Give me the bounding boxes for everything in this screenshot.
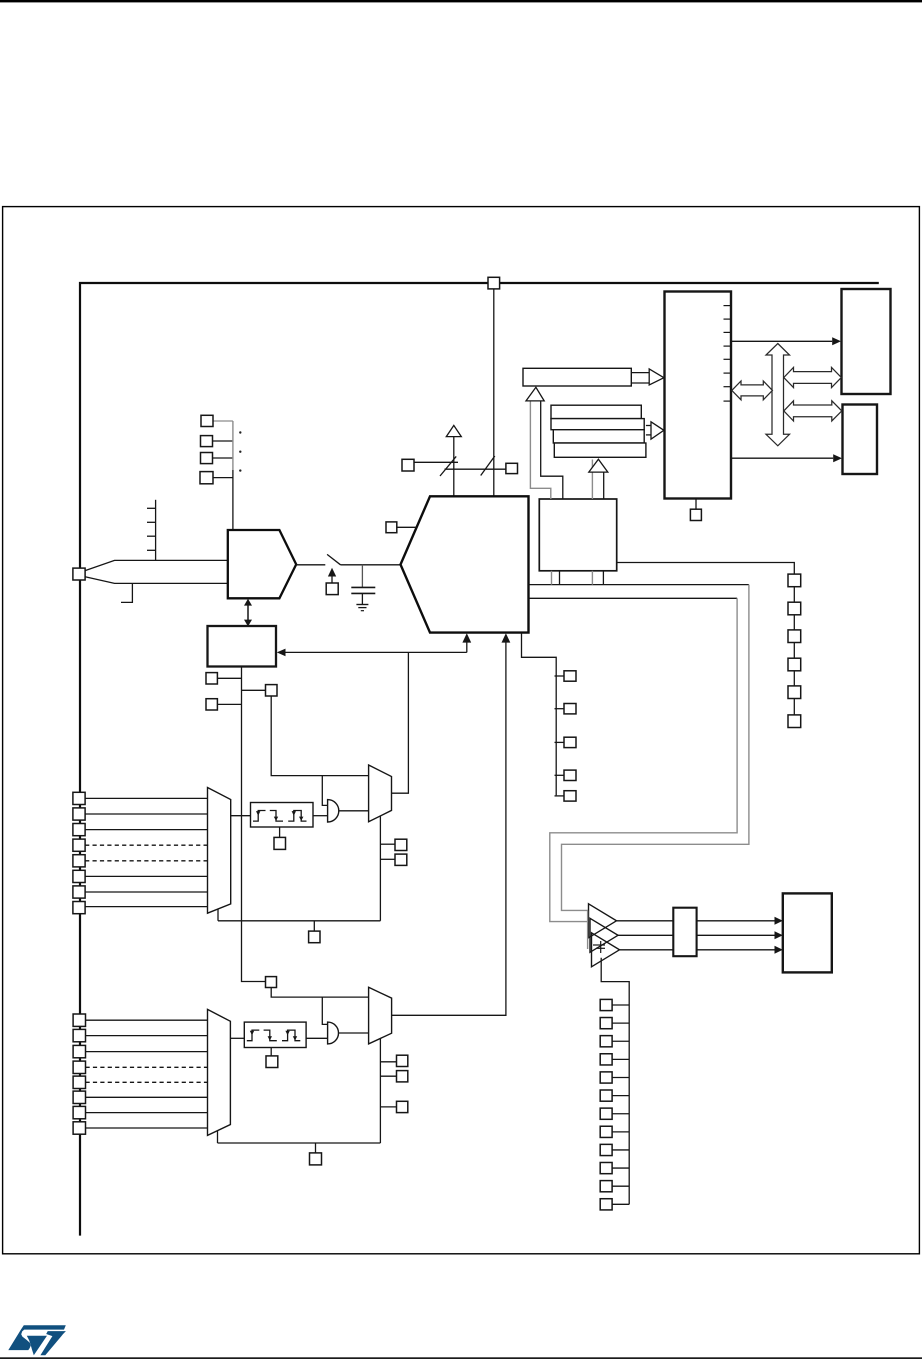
- comparator 3: [592, 933, 620, 967]
- ST Microelectronics logo: [8, 1325, 66, 1355]
- pin square P1.4: [73, 855, 85, 867]
- wire: capture net timer2: [271, 988, 368, 998]
- pin square D5: [600, 1090, 612, 1101]
- wire stub D3: [612, 1058, 629, 1060]
- bidirectional arrow oscillator-controller: [247, 605, 249, 621]
- wire stub D10: [612, 1185, 629, 1187]
- wire stub flag2: [555, 708, 565, 710]
- wire: VDD node down to CPU: [493, 289, 495, 496]
- wire: port pin 8 to mux2: [86, 1127, 208, 1129]
- pin square P1.1: [73, 808, 85, 820]
- bus legs below block: [551, 571, 553, 585]
- pin square D2: [600, 1036, 612, 1047]
- pin square P2.1: [73, 1029, 85, 1041]
- pin square below timer1: [309, 931, 320, 943]
- arrow into CPU bottom (timer2): [502, 633, 511, 642]
- pin square flag2: [564, 704, 576, 714]
- pin square timer1 out B: [395, 854, 407, 865]
- wire memory to program ROM (arrow): [731, 340, 832, 342]
- pin square P1.6: [73, 886, 85, 898]
- wire: pin2 to interrupt net: [213, 440, 233, 442]
- open arrowhead to R1: [526, 387, 544, 401]
- wire stub D2: [612, 1040, 629, 1042]
- pin square below memory: [690, 509, 701, 520]
- node VDD junction square on top bus: [488, 277, 500, 289]
- horizontal bus double-arrow (memory-bus): [732, 381, 773, 400]
- pin square below timer2: [310, 1153, 322, 1165]
- pin square IT2: [201, 436, 213, 447]
- wire: port pin 1 to mux: [85, 797, 207, 799]
- pin square P1.7: [73, 902, 85, 914]
- wire: pin3 to interrupt net: [213, 457, 233, 459]
- wire: port pin 3 to mux: [85, 829, 207, 831]
- pin square D10: [600, 1181, 612, 1192]
- pin square timer-ctl (top): [266, 685, 278, 696]
- wire: port pin 2 to mux: [85, 813, 207, 815]
- level shifter narrow block: [673, 908, 696, 957]
- wire stub D4: [612, 1076, 629, 1078]
- wire stub flag3: [555, 741, 565, 743]
- OSCOUT stub: [121, 583, 132, 602]
- two-wire arrow up to register R1: [530, 401, 550, 499]
- pin square timer2 out C: [397, 1101, 408, 1112]
- pin square D3: [600, 1054, 612, 1065]
- wire stub flag4: [555, 774, 565, 776]
- wire: CPU data out B: [529, 597, 738, 599]
- wire: port pin 1 to mux2: [86, 1019, 208, 1021]
- output compare block: [783, 893, 832, 972]
- wire: mux4 out to CPU bottom arrow: [392, 642, 506, 1015]
- wire: port pin 7 to mux2: [86, 1112, 208, 1114]
- pin square P2.7: [73, 1122, 85, 1134]
- open arrow stack to memory: [646, 425, 651, 427]
- pin square IT1: [201, 415, 213, 426]
- timer1 output mux (small trapezoid): [369, 765, 392, 822]
- pin square D11: [600, 1199, 612, 1210]
- wire: gate2 out to mux4: [339, 1032, 369, 1034]
- pin square T6: [788, 715, 801, 728]
- pin square T4: [788, 658, 801, 671]
- schmitt1 waveform glyphs: [253, 811, 266, 822]
- wire: port pin 4 to mux2: [86, 1066, 208, 1068]
- wire to ctl square: [242, 689, 266, 691]
- timer1 block bottom frame: [379, 816, 381, 921]
- pin square D0: [600, 999, 612, 1010]
- wire: block to test-pin chain: [617, 563, 795, 575]
- oscillator bus (pointed duct): [85, 560, 228, 570]
- bus-width slash 1: [440, 456, 456, 476]
- pin square below schmitt2: [266, 1056, 278, 1068]
- pin square T3: [788, 630, 801, 643]
- open arrow R1 to memory: [631, 372, 649, 374]
- pin square D7: [600, 1126, 612, 1137]
- pin square P2.3: [73, 1061, 85, 1073]
- oscillator block (pentagon): [228, 530, 296, 598]
- pin square timer-ctl (mid): [266, 977, 277, 988]
- pin square T1: [788, 574, 801, 587]
- CPU core (large pentagon): [401, 496, 529, 632]
- pin square P1.5: [73, 870, 85, 882]
- wire stub D6: [612, 1113, 629, 1115]
- wire stub D11: [612, 1203, 629, 1205]
- pin square D4: [600, 1072, 612, 1083]
- wire stub D5: [612, 1095, 629, 1097]
- pin square D6: [600, 1108, 612, 1119]
- pin square P1.3: [73, 839, 85, 851]
- wire: port pin 4 to mux: [85, 844, 207, 846]
- wire: port pin 6 to mux: [85, 875, 207, 877]
- switch to CPU clock: [296, 564, 325, 566]
- pin square IT4: [200, 472, 213, 484]
- instruction register block: [539, 499, 616, 571]
- program ROM block: [842, 289, 891, 394]
- timer2 output mux (small trapezoid): [369, 987, 392, 1044]
- pin square P2.6: [73, 1106, 85, 1118]
- wire: reset into CPU: [397, 526, 417, 528]
- wire: bus segment right: [445, 468, 506, 470]
- wire chain link: [793, 587, 795, 603]
- arrow into CPU bottom (timer1): [466, 642, 468, 652]
- wire stub D0: [612, 1004, 629, 1006]
- wire stub D1: [612, 1022, 629, 1024]
- pin square T2: [788, 602, 801, 615]
- wire with arrow into controller: [285, 651, 467, 653]
- page bottom rule: [0, 1357, 922, 1359]
- wire: gate1 out to mux2: [339, 810, 369, 812]
- horizontal bus double-arrow (bus-RAM): [784, 401, 842, 421]
- wire: tap down into CPU: [453, 437, 455, 497]
- wire: capture net to gates/muxes (timer1): [271, 696, 368, 776]
- wire stub flag5: [555, 795, 565, 797]
- wire: port pin 5 to mux2: [86, 1081, 208, 1083]
- timer2 block bottom frame: [379, 1038, 381, 1143]
- ellipsis dots: [239, 431, 241, 433]
- pin square IT3: [201, 453, 213, 464]
- wires to output compare block (arrows): [697, 920, 775, 922]
- wire: comparator to DAC pin chain: [601, 958, 629, 1205]
- pin square P2.2: [73, 1045, 85, 1057]
- pin square flag1: [564, 671, 576, 681]
- wire: port pin 7 to mux: [85, 891, 207, 893]
- wire chain link: [793, 699, 795, 715]
- memory block (tall rectangle): [665, 292, 732, 499]
- pin square timer1 out A: [395, 839, 407, 850]
- pin square P2.4: [73, 1076, 85, 1088]
- pin square below schmitt1: [274, 837, 286, 849]
- wire: control register net (long vertical): [242, 667, 266, 982]
- gray input join at comparator edge: [587, 910, 589, 949]
- pin square D8: [600, 1144, 612, 1155]
- AND gate timer2: [328, 1022, 339, 1044]
- pin square D1: [600, 1018, 612, 1029]
- power/clock bus: thick top + left frame line: [80, 283, 879, 1236]
- AND gate timer1: [328, 800, 339, 822]
- comparator +/- marks: [593, 944, 605, 946]
- wire: port pin 6 to mux2: [86, 1096, 208, 1098]
- wire: pin1 to interrupt net: [213, 420, 233, 422]
- horizontal bus double-arrow (bus-ROM): [784, 367, 842, 387]
- timer2 input mux (tall trapezoid): [208, 1009, 231, 1135]
- pin square bus-left: [402, 459, 414, 471]
- controller pin squares: [217, 677, 241, 679]
- timer1 input mux (tall trapezoid): [208, 788, 231, 914]
- pin square T5: [788, 686, 801, 699]
- comparator 2: [590, 918, 618, 952]
- bus-width slash 2: [481, 456, 495, 476]
- register R1 (program counter): [523, 368, 631, 386]
- open arrowhead to stack: [589, 459, 608, 472]
- pin square timer2 out A: [397, 1055, 408, 1066]
- two-wire arrow up to register stack: [591, 460, 593, 473]
- wire stub flag1: [555, 675, 565, 677]
- data RAM block: [843, 405, 878, 475]
- wire: interrupt net vertical: [232, 421, 234, 470]
- comparator 1: [589, 904, 617, 938]
- wire: CPU flag net elbow: [522, 633, 557, 796]
- stack registers (4 stacked): [551, 405, 641, 418]
- pin square P2.5: [73, 1091, 85, 1103]
- pin square P1.0: [73, 792, 85, 804]
- pin square P2.0: [73, 1014, 85, 1026]
- memory byte ticks: [724, 305, 731, 307]
- clock controller block: [208, 626, 277, 667]
- pin square P1.2: [73, 824, 85, 836]
- wire chain link: [793, 643, 795, 659]
- schmitt trigger block timer2: [230, 1037, 244, 1039]
- halt control: arrow + pin square: [331, 577, 333, 584]
- wire: port pin 3 to mux2: [86, 1051, 208, 1053]
- pin square flag4: [564, 770, 576, 780]
- pin square OSCIN on frame: [73, 568, 85, 580]
- pin square flag3: [564, 737, 576, 747]
- wire: port pin 8 to mux: [85, 906, 207, 908]
- wire stub D8: [612, 1149, 629, 1151]
- wire: mux2 out up to controller line: [392, 652, 409, 793]
- wire: port pin 2 to mux2: [86, 1035, 208, 1037]
- pin square bus-right: [506, 463, 518, 473]
- pin square timer2 out B: [397, 1071, 408, 1082]
- vertical bus double-arrow: [766, 344, 790, 446]
- gray routed path A to comparators: [562, 585, 749, 911]
- pin square RESET: [386, 522, 397, 533]
- wire chain link: [793, 671, 795, 686]
- wire: bus segment left: [414, 461, 458, 463]
- wire stub D9: [612, 1167, 629, 1169]
- gray routed path B to comparators: [550, 598, 737, 921]
- comparator outputs: [617, 920, 674, 922]
- wire: port pin 5 to mux: [85, 860, 207, 862]
- pin square flag5: [564, 791, 576, 801]
- page top rule: [0, 0, 922, 2]
- open triangle (supply symbol): [446, 425, 461, 436]
- wire: CPU data out A: [529, 584, 749, 586]
- wire stub D7: [612, 1131, 629, 1133]
- wire: pin4 to interrupt net: [213, 477, 233, 479]
- figure outer frame: [3, 207, 920, 1254]
- schmitt trigger block timer1: [231, 815, 251, 817]
- clock divider tap comb: [155, 500, 157, 561]
- wire memory to data RAM (arrow): [731, 457, 833, 459]
- schmitt2 waveform glyphs: [247, 1030, 259, 1041]
- wire chain link: [793, 615, 795, 630]
- load capacitor + ground: [361, 565, 363, 587]
- pin square D9: [600, 1162, 612, 1173]
